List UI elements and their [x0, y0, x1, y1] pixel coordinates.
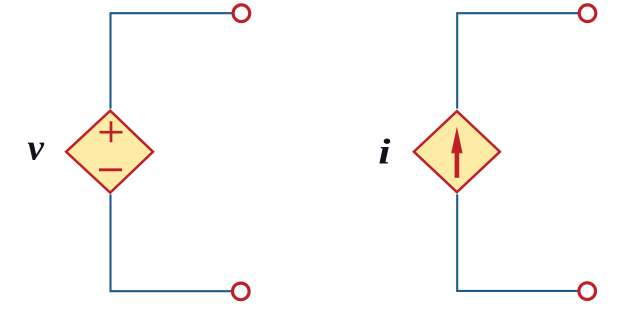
svg-text:v: v: [28, 128, 45, 169]
current arrow stem: [455, 151, 460, 178]
dependent voltage source v (diamond body): [66, 111, 153, 193]
node c terminal (open circle, top of current source): [579, 5, 596, 22]
svg-text:i: i: [378, 131, 390, 171]
current arrow head: [451, 127, 462, 154]
wire: right source bottom lead (vertical + horizontal to node d): [457, 194, 578, 291]
node b terminal (open circle, bottom of voltage source): [233, 283, 250, 300]
wire: left source bottom lead (vertical + horizontal to node b): [111, 194, 233, 291]
wire: right source top lead (vertical + horizontal to node c): [457, 13, 578, 108]
plus sign (voltage source polarity): [100, 121, 123, 142]
dependent current source i (diamond body): [414, 111, 500, 192]
node a terminal (open circle, top of voltage source): [233, 5, 250, 22]
wire: left source top lead (vertical + horizontal to node a): [111, 13, 233, 108]
node d terminal (open circle, bottom of current source): [579, 283, 596, 300]
minus sign (voltage source polarity): [99, 168, 122, 171]
